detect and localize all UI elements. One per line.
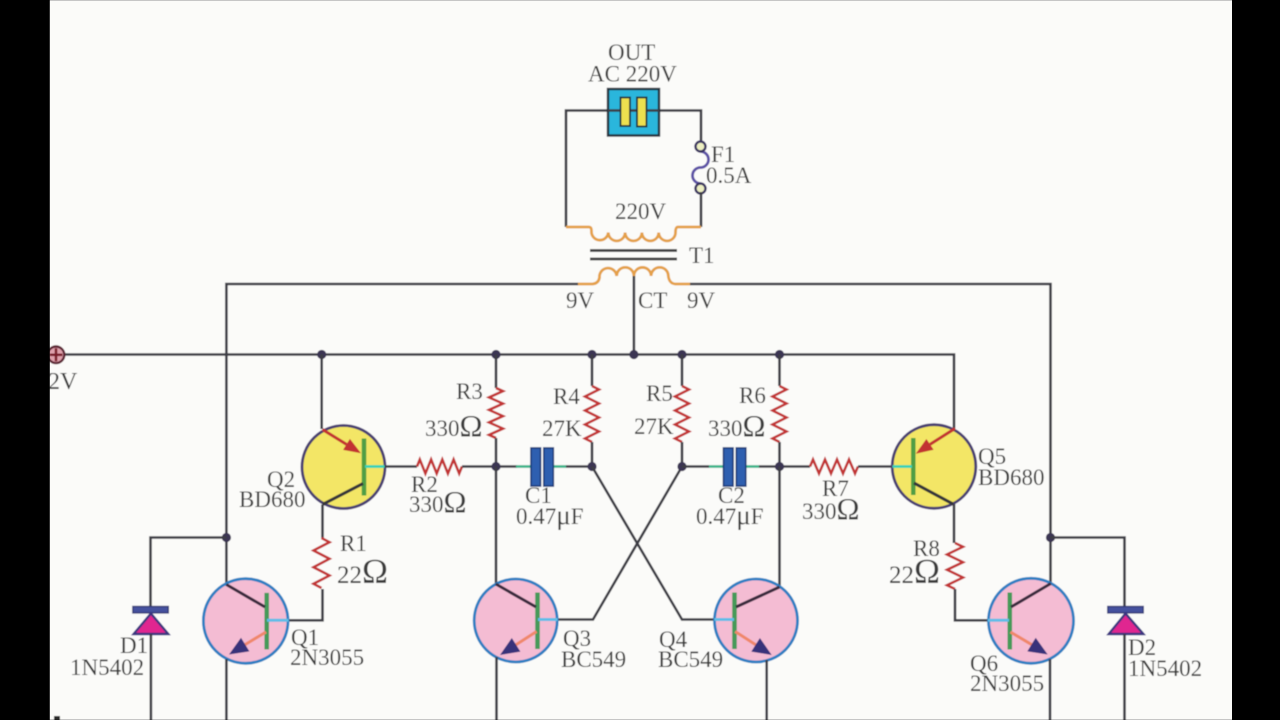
node right drop — [1046, 533, 1055, 542]
svg-text:BC549: BC549 — [561, 647, 626, 672]
wire 9V bus left + left drop — [226, 284, 578, 584]
wire Q3 collector — [495, 467, 498, 585]
svg-text:9V: 9V — [566, 288, 595, 313]
wire R7 to Q5 — [858, 465, 893, 468]
wire R4 top — [591, 355, 594, 387]
transistor Q1 2N3055 — [203, 579, 288, 664]
svg-text:2N3055: 2N3055 — [290, 645, 364, 670]
wire Q6 emitter down — [1049, 659, 1052, 720]
transistor Q5 BD680 — [892, 425, 976, 509]
wire node to C2 — [682, 465, 709, 468]
svg-text:BD680: BD680 — [978, 465, 1044, 490]
node rail x=592 — [587, 350, 596, 359]
wire Q5 emitter to R8 — [953, 504, 956, 543]
wire cross diagonal R — [557, 467, 682, 620]
transistor Q6 2N3055 — [988, 578, 1074, 663]
svg-text:T1: T1 — [689, 243, 715, 268]
resistor R1 — [314, 538, 330, 588]
wire C2 to node — [759, 465, 810, 468]
svg-text:1N5402: 1N5402 — [70, 655, 144, 680]
wire R8 to Q6 base — [955, 589, 988, 620]
svg-text:2N3055: 2N3055 — [970, 671, 1044, 696]
fuse F1 — [693, 142, 709, 194]
svg-text:27K: 27K — [542, 416, 582, 441]
svg-text:AC 220V: AC 220V — [588, 62, 677, 87]
resistor R6 — [773, 386, 787, 442]
transistor Q3 BC549 — [474, 579, 557, 662]
node C2-R5 — [677, 462, 686, 471]
wire R3 bottom — [495, 438, 498, 467]
resistor R5 — [675, 386, 689, 442]
wire 9V bus right + right drop — [690, 284, 1051, 583]
wire cross diagonal L — [592, 467, 715, 620]
svg-text:0.47μF: 0.47μF — [696, 500, 764, 530]
wire R6 top — [778, 355, 781, 387]
wire Q3 emitter down — [495, 657, 498, 720]
wire R5 bottom — [681, 442, 684, 467]
resistor R7 — [810, 460, 858, 474]
wire main 12V rail — [64, 355, 954, 432]
wire R3 top — [495, 355, 498, 389]
wire node to D1 — [151, 538, 227, 607]
node rail x=496 — [491, 350, 500, 359]
wire Q4 collector — [778, 467, 781, 588]
wire R1 to Q1 base — [289, 589, 323, 620]
resistor R3 — [489, 388, 503, 438]
svg-text:0.5A: 0.5A — [706, 163, 752, 188]
wire Q2 emitter to R1 — [321, 505, 324, 539]
capacitor C1 — [516, 448, 566, 486]
node left drop — [222, 533, 231, 542]
wire fuse to primary — [700, 192, 703, 227]
wire Q2 base to R2 — [385, 465, 418, 468]
transformer T1 core — [590, 249, 677, 252]
node mid-left — [491, 462, 500, 471]
transistor Q2 BD680 — [302, 426, 385, 509]
wire Q4 emitter down — [765, 660, 768, 720]
diode D2 — [1108, 607, 1144, 635]
svg-text:BD680: BD680 — [239, 487, 305, 512]
node rail x=682 — [677, 350, 686, 359]
svg-text:R3: R3 — [456, 379, 483, 404]
resistor R8 — [947, 543, 963, 589]
transistor Q4 BC549 — [715, 579, 798, 662]
wire Q1 emitter down — [225, 659, 228, 720]
svg-text:27K: 27K — [634, 414, 674, 439]
svg-text:220V: 220V — [615, 199, 667, 224]
wire node to D2 — [1051, 538, 1125, 607]
node mid-right — [775, 462, 784, 471]
wire Q2 collector — [320, 355, 323, 430]
transformer T1 secondary coil — [578, 267, 690, 284]
svg-text:R6: R6 — [739, 383, 766, 408]
wire R5 top — [681, 355, 684, 387]
stray mark — [54, 716, 60, 720]
capacitor C2 — [709, 448, 759, 486]
wire R2 to node — [462, 465, 517, 468]
wire C1 to node — [566, 465, 592, 468]
node C1-R4 — [587, 462, 596, 471]
resistor R4 — [585, 386, 599, 442]
svg-text:9V: 9V — [687, 288, 716, 313]
terminal 12V — [48, 347, 65, 364]
socket OUT AC220V — [608, 89, 659, 136]
svg-text:1N5402: 1N5402 — [1128, 656, 1202, 681]
wire R4 bottom — [591, 442, 594, 467]
node rail x=779.5 — [775, 350, 784, 359]
diode D1 — [133, 607, 168, 635]
wire socket top loop — [566, 111, 701, 228]
transformer T1 primary coil — [566, 227, 701, 241]
wire R6 bottom — [778, 442, 781, 467]
wire CT stem — [633, 276, 636, 355]
svg-text:0.47μF: 0.47μF — [516, 500, 584, 530]
wire D1 down — [150, 634, 153, 720]
node rail x=321.7 — [317, 350, 326, 359]
svg-text:R5: R5 — [646, 381, 673, 406]
wire D2 down — [1123, 634, 1126, 720]
svg-text:R4: R4 — [553, 384, 580, 409]
svg-text:CT: CT — [638, 288, 667, 313]
resistor R2 — [417, 460, 462, 474]
svg-text:BC549: BC549 — [658, 647, 723, 672]
node rail x=633.9 — [629, 350, 638, 359]
